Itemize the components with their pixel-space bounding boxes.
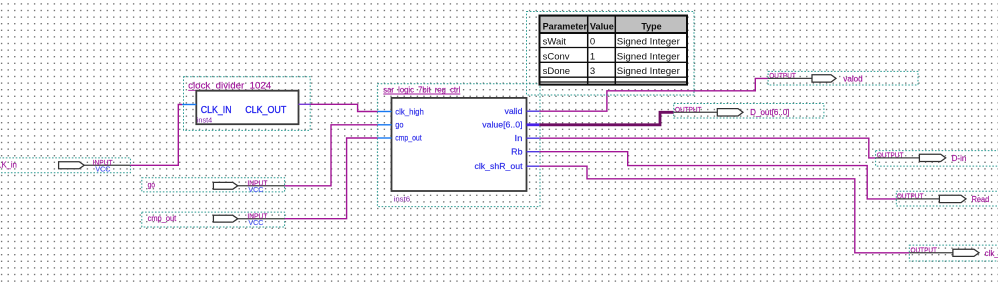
svg-text:Signed Integer: Signed Integer — [617, 37, 680, 48]
output pin D_out[6..0] selection box — [674, 104, 824, 119]
output pin Read selection box — [896, 191, 998, 206]
bus stub value[6..0] — [527, 123, 540, 126]
svg-text:OUTPUT: OUTPUT — [897, 194, 924, 201]
svg-text:go: go — [395, 120, 404, 130]
output pin clk symbol — [909, 252, 953, 254]
svg-text:3: 3 — [590, 66, 595, 77]
svg-text:cmp_out: cmp_out — [395, 133, 422, 143]
svg-text:valid: valid — [505, 106, 523, 116]
output pin valod selection box — [768, 71, 918, 85]
svg-text:clk_s: clk_s — [985, 249, 998, 258]
wire In to D-in — [539, 138, 875, 158]
block U1 clock_divider_1024 body — [196, 91, 298, 125]
input pin clk_in selection box — [0, 158, 130, 173]
wire stub Rb — [527, 151, 540, 153]
svg-text:0: 0 — [590, 37, 595, 48]
wire CLK_OUT highlighted segment — [299, 103, 311, 105]
svg-text:Read: Read — [972, 195, 990, 204]
parameter table selection box — [527, 12, 695, 96]
output pin D_out symbol — [674, 111, 718, 113]
svg-text:cmp_out: cmp_out — [148, 214, 177, 223]
wire valid to valod — [539, 78, 768, 111]
wire stub blue cmp_out — [378, 137, 392, 139]
block U1 title clock_divider_1024 — [188, 81, 271, 91]
output pin clk selection box — [909, 245, 998, 261]
svg-text:Signed Integer: Signed Integer — [617, 66, 680, 77]
svg-text:CLK_OUT: CLK_OUT — [245, 105, 286, 116]
wire cmp_out to cmp_out — [285, 138, 378, 219]
svg-text:OUTPUT: OUTPUT — [911, 248, 938, 255]
wire Rb to Read — [539, 152, 896, 199]
svg-text:OUTPUT: OUTPUT — [769, 73, 796, 80]
svg-text:D-in: D-in — [952, 154, 967, 163]
svg-text:go: go — [148, 181, 156, 190]
svg-text:inst6: inst6 — [394, 195, 411, 204]
svg-text:sar_logic_7bit_reg_ctrl: sar_logic_7bit_reg_ctrl — [383, 85, 460, 94]
wire stub blue go — [378, 124, 392, 126]
svg-text:clk_shR_out: clk_shR_out — [475, 161, 524, 171]
wire go to go — [285, 125, 378, 186]
wire clk_shR_out to clk — [539, 166, 909, 253]
wire stub valid — [527, 110, 540, 112]
svg-text:VCC: VCC — [248, 187, 263, 194]
block U2 sar_logic_7bit_reg_ctrl selection box — [377, 84, 540, 207]
output pin valod symbol — [768, 77, 812, 79]
output pin Read symbol — [896, 198, 939, 200]
input pin cmp_out symbol — [213, 215, 237, 222]
svg-text:sDone: sDone — [543, 66, 570, 77]
wire CLK_OUT to clk_high — [311, 104, 378, 111]
block U2 sar_logic_7bit_reg_ctrl body — [392, 98, 527, 191]
bus value[6..0] to D_out — [539, 112, 673, 125]
output pin D-in symbol — [876, 157, 920, 159]
wire stub clk_shR_out — [527, 165, 540, 167]
svg-text:Parameter: Parameter — [543, 22, 588, 32]
block U1 clock_divider_1024 selection box — [184, 77, 311, 131]
svg-text:clock_divider_1024: clock_divider_1024 — [188, 81, 271, 91]
input pin cmp_out selection box — [142, 212, 285, 227]
block U2 title sar_logic_7bit_reg_ctrl — [383, 85, 460, 94]
svg-text:Signed Integer: Signed Integer — [617, 51, 680, 62]
svg-text:D_out[6..0]: D_out[6..0] — [750, 108, 789, 117]
svg-text:In: In — [515, 133, 523, 143]
input pin clk_in symbol — [59, 162, 85, 169]
svg-text:OUTPUT: OUTPUT — [877, 153, 904, 160]
svg-text:sWait: sWait — [543, 37, 567, 48]
svg-text:Rb: Rb — [511, 147, 523, 157]
svg-text:Type: Type — [641, 22, 661, 32]
svg-text:clk_high: clk_high — [395, 106, 424, 116]
svg-text:VCC: VCC — [95, 166, 110, 173]
svg-text:cLK_in: cLK_in — [0, 160, 17, 169]
svg-text:inst4: inst4 — [197, 115, 212, 124]
wire stub blue clk_high — [378, 111, 392, 113]
wire stub blue CLK_IN — [182, 104, 196, 106]
svg-text:value[6..0]: value[6..0] — [482, 120, 522, 130]
svg-text:VCC: VCC — [248, 220, 263, 227]
input pin go symbol — [213, 182, 237, 189]
svg-text:Value: Value — [590, 22, 614, 32]
input pin go selection box — [142, 178, 285, 192]
svg-text:OUTPUT: OUTPUT — [675, 107, 702, 114]
output pin D-in selection box — [876, 151, 998, 167]
wire stub In — [527, 137, 540, 139]
svg-text:valod: valod — [843, 74, 862, 83]
svg-text:sConv: sConv — [543, 51, 570, 62]
wire clk_in to CLK_IN — [130, 105, 182, 166]
parameter table — [540, 16, 688, 85]
svg-text:1: 1 — [590, 51, 595, 62]
